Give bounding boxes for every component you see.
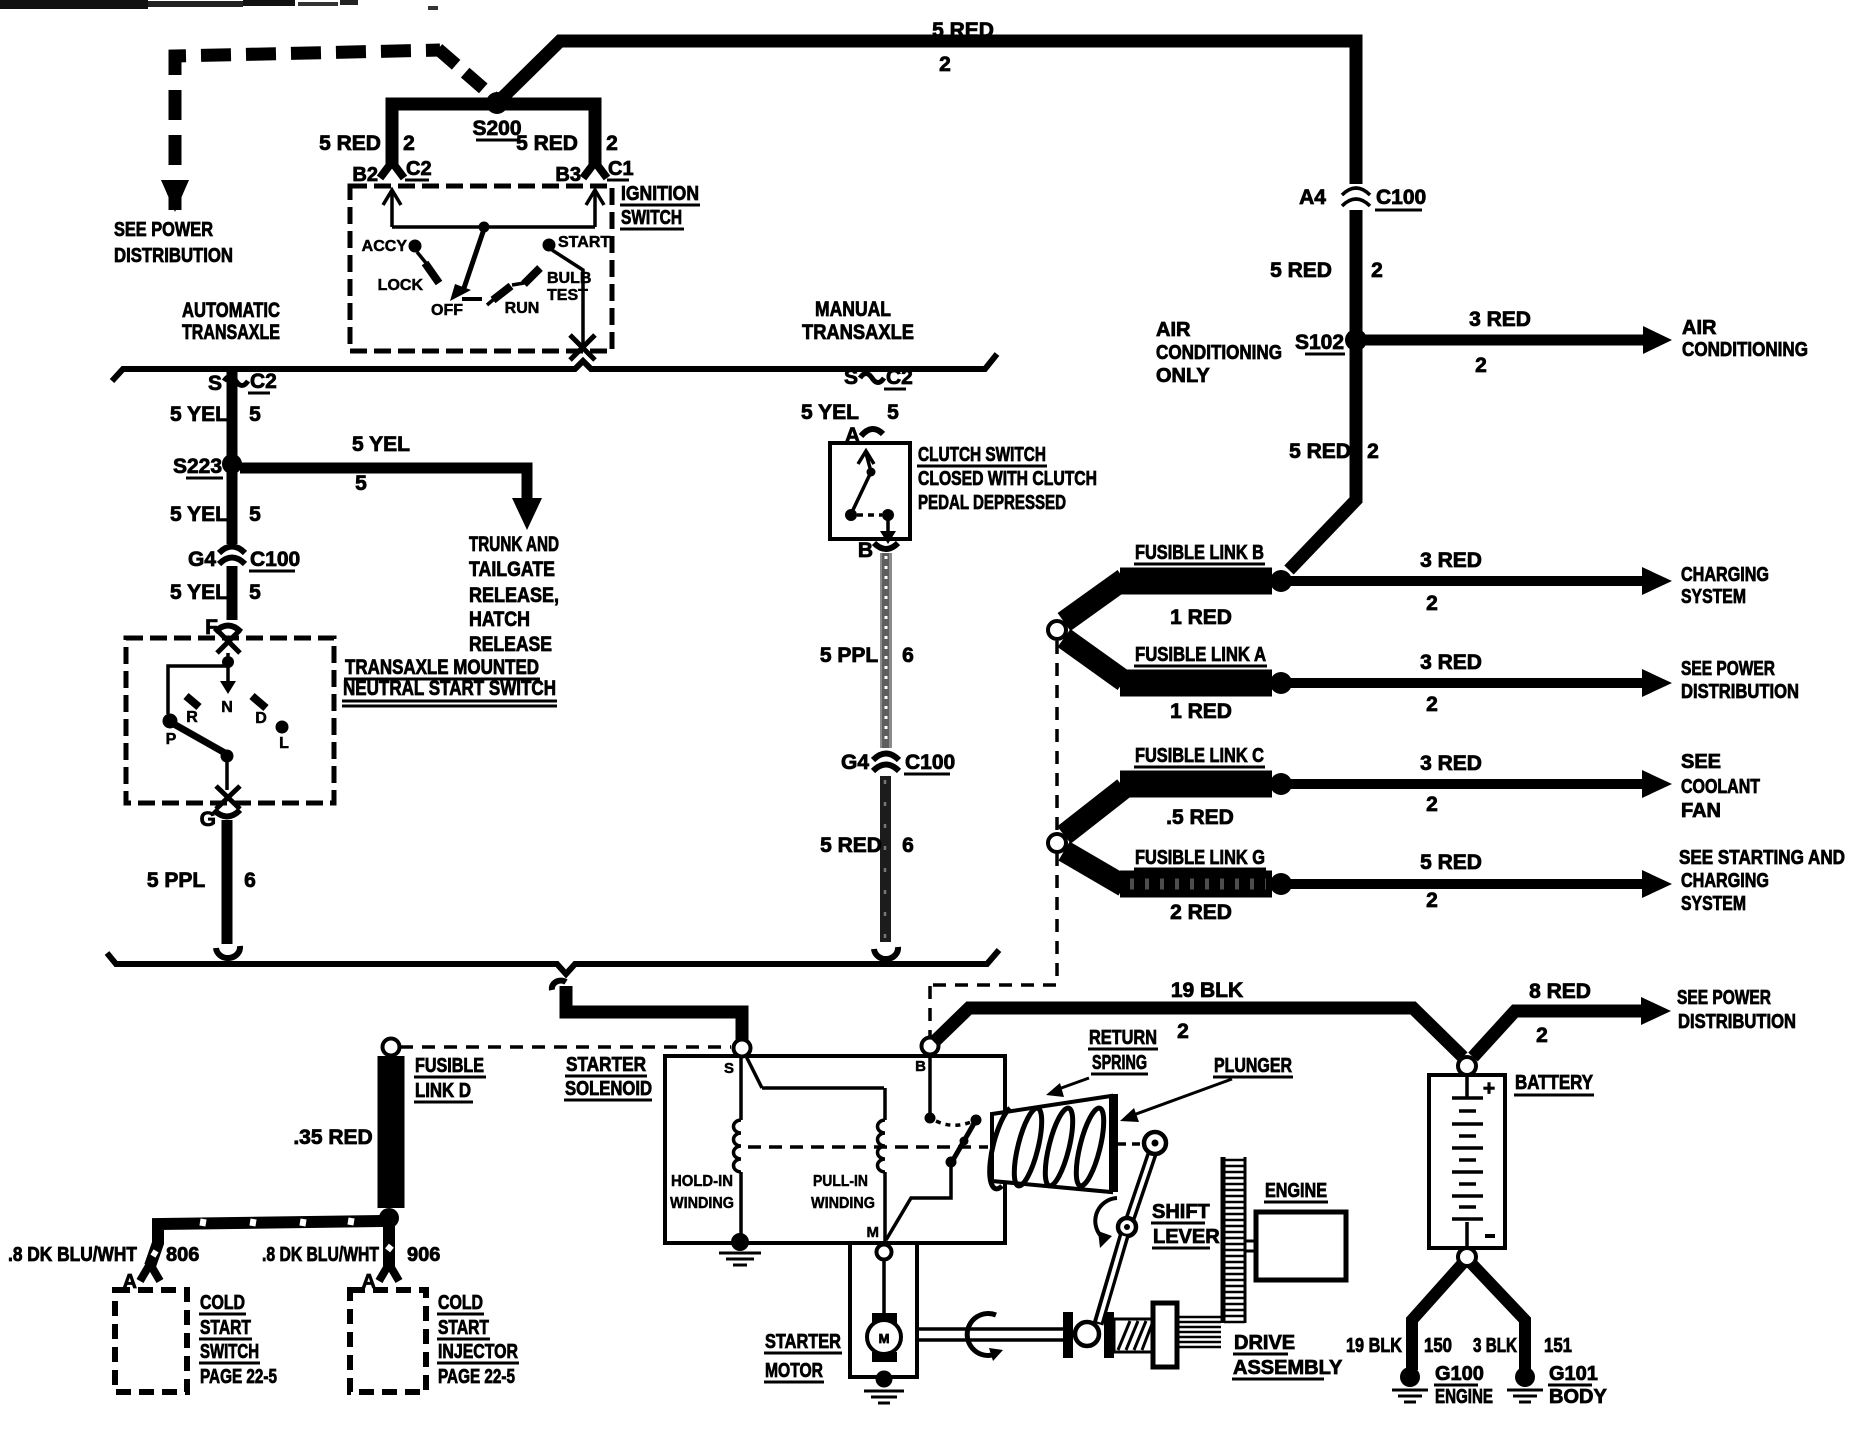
label CLUTCH SWITCH CLOSED WITH CLUTCH PEDAL DEPRESSED [917,444,1097,514]
label SEE POWER DISTRIBUTION (battery) [1677,987,1796,1033]
engine box [1246,1212,1346,1280]
svg-text:2: 2 [1426,793,1438,816]
battery negative terminal [1458,1248,1476,1266]
svg-text:M: M [879,1331,890,1346]
svg-text:3 RED: 3 RED [1420,549,1482,572]
svg-text:C2: C2 [886,366,913,389]
X crossing at neutral start switch bottom [216,786,240,809]
battery positive terminal [1458,1057,1476,1075]
svg-text:START: START [200,1317,251,1339]
hook at wire end (automatic column) [216,946,240,958]
svg-text:CHARGING: CHARGING [1681,870,1769,892]
svg-text:COLD: COLD [200,1292,245,1314]
drive splined shaft [1177,1317,1221,1347]
svg-text:ONLY: ONLY [1156,365,1210,387]
svg-text:STARTER: STARTER [566,1054,646,1076]
label AIR CONDITIONING ONLY [1156,319,1282,387]
svg-text:BATTERY: BATTERY [1515,1072,1594,1094]
svg-text:START: START [558,234,610,251]
terminal B circle [915,1038,938,1076]
svg-text:TRANSAXLE MOUNTED: TRANSAXLE MOUNTED [345,656,539,679]
ignition switch bar [392,225,595,229]
label CHARGING SYSTEM [1681,564,1769,608]
wire arrow: 8 RED to power distribution [1473,997,1671,1057]
svg-text:5 RED: 5 RED [319,132,381,155]
svg-text:C100: C100 [250,548,300,571]
svg-text:6: 6 [902,834,914,857]
svg-text:DISTRIBUTION: DISTRIBUTION [1678,1011,1796,1033]
svg-text:FUSIBLE LINK G: FUSIBLE LINK G [1135,847,1265,869]
arrow: see power distribution (down arrow) [161,180,189,212]
svg-text:5: 5 [249,581,261,604]
svg-text:LOCK: LOCK [378,277,424,294]
fusible link D bar [379,1056,399,1228]
svg-text:HOLD-IN: HOLD-IN [671,1173,733,1190]
hold-in winding coil [734,1120,742,1172]
label SEE COOLANT FAN [1681,751,1760,822]
svg-text:AIR: AIR [1682,317,1717,339]
svg-text:WINDING: WINDING [670,1195,734,1212]
label PLUNGER with leader arrow [1120,1055,1293,1122]
svg-text:5 RED: 5 RED [932,19,994,42]
label AUTOMATIC TRANSAXLE [182,299,280,344]
starter motor ground [864,1371,904,1404]
svg-text:5 YEL: 5 YEL [801,401,859,424]
svg-text:SEE POWER: SEE POWER [1677,987,1771,1009]
svg-text:.5 RED: .5 RED [1166,806,1234,829]
svg-text:G100: G100 [1435,1363,1484,1385]
svg-text:D: D [255,710,267,727]
label IGNITION SWITCH [620,183,700,229]
wire arrow: 3 RED to air conditioning [1360,326,1672,354]
svg-text:RUN: RUN [505,300,540,317]
svg-text:B: B [858,539,873,562]
connector G4 C100 (automatic column) [188,547,300,572]
hold-in winding to ground [719,1172,761,1265]
svg-text:2: 2 [606,132,618,155]
plunger face bar [1110,1094,1118,1192]
svg-text:C100: C100 [905,751,955,774]
svg-text:FAN: FAN [1681,800,1721,822]
battery box [1429,1075,1505,1248]
svg-text:3 BLK: 3 BLK [1473,1335,1517,1357]
label ENGINE [1264,1180,1328,1202]
svg-text:C1: C1 [608,158,634,180]
label 8 RED 2 [1529,980,1591,1047]
svg-text:RETURN: RETURN [1089,1027,1157,1049]
wire: 5 PPL gray stippled (clutch to C100) [880,553,892,748]
hook at wire end (manual column) [874,947,898,959]
label AIR CONDITIONING (right) [1682,317,1808,361]
wire: 5 PPL G to bus [222,820,233,944]
svg-text:2: 2 [1426,592,1438,615]
label PULL-IN WINDING [811,1173,875,1212]
pull-in winding coil [878,1088,885,1243]
shift lever [1098,1132,1166,1324]
svg-text:5 RED: 5 RED [820,834,882,857]
rotation arrow on shaft [967,1313,1003,1361]
svg-text:S: S [724,1060,734,1077]
svg-text:ACCY: ACCY [362,238,408,255]
svg-text:PAGE 22-5: PAGE 22-5 [200,1366,277,1388]
svg-text:151: 151 [1544,1335,1572,1357]
svg-text:2: 2 [1426,693,1438,716]
splice S200 node [486,92,508,114]
svg-text:COOLANT: COOLANT [1681,776,1760,798]
wire: trunk 5 RED (S102 down to bend) [1289,346,1356,570]
svg-text:SEE POWER: SEE POWER [1681,658,1775,680]
wire arrow: 3 RED to coolant fan [1283,770,1672,798]
label 5 YEL 5 [170,503,261,526]
svg-text:CONDITIONING: CONDITIONING [1682,339,1808,361]
terminal M [867,1224,892,1315]
svg-text:MANUAL: MANUAL [815,298,891,321]
svg-text:LEVER: LEVER [1153,1226,1220,1248]
svg-text:N: N [221,699,233,716]
terminal S circle [724,1040,751,1078]
label 5 RED 6 [820,834,914,857]
label FUSIBLE LINK D [414,1055,486,1102]
drive collar bar [1104,1312,1114,1358]
wire: 5 YEL branch to trunk release [240,468,527,500]
svg-text:5 RED: 5 RED [1270,259,1332,282]
svg-text:3 RED: 3 RED [1420,651,1482,674]
NSS input node [222,653,234,668]
svg-text:+: + [1483,1077,1495,1100]
wire: trunk 5 RED (C100 to S102) [1350,210,1363,334]
svg-text:SHIFT: SHIFT [1152,1201,1210,1223]
ignition switch wiper junction [479,222,490,233]
label B2 C2 [352,158,431,186]
dashed link: node to node [1055,641,1059,832]
label 5 RED 2 (upper trunk) [1270,259,1383,282]
hold-in winding wire from S [741,1054,884,1120]
connector S C2 (automatic column) [208,370,277,395]
svg-text:MOTOR: MOTOR [765,1360,823,1382]
svg-text:C100: C100 [1376,186,1426,209]
svg-text:AIR: AIR [1156,319,1191,341]
wire: 5 YEL S223 to C100 [227,472,238,544]
terminal B3/C1 prongs [583,162,607,178]
wire: bus to starter solenoid S [566,986,742,1042]
svg-text:RELEASE: RELEASE [469,633,552,656]
label 19 BLK 150 [1346,1335,1452,1357]
svg-text:SPRING: SPRING [1092,1052,1147,1074]
svg-text:SOLENOID: SOLENOID [565,1078,652,1100]
label 5 RED 2 (left) [319,132,415,155]
arrow: to trunk and tailgate release [512,498,542,530]
svg-text:START: START [438,1317,489,1339]
label 5 YEL 5 [170,581,261,604]
starter solenoid box [665,1056,1005,1243]
svg-text:5: 5 [887,401,899,424]
svg-text:BODY: BODY [1549,1386,1607,1408]
svg-text:FUSIBLE LINK A: FUSIBLE LINK A [1135,644,1266,666]
bus wire: lower bus with crossover notch [107,950,999,974]
svg-text:LINK D: LINK D [415,1080,471,1102]
ignition switch dashed box [350,186,612,351]
flywheel ring gear rack [1223,1157,1245,1323]
wire arrow: 3 RED to charging system [1283,567,1672,595]
svg-text:S: S [208,372,222,395]
label top 5 RED 2 [932,19,994,76]
svg-text:TRUNK AND: TRUNK AND [469,533,559,556]
svg-text:PULL-IN: PULL-IN [813,1173,868,1190]
fusible link C bar [1064,773,1292,835]
wire: 5 YEL C100 to F [227,566,238,620]
wire arrow: 5 RED to starting and charging [1283,870,1672,898]
svg-text:S102: S102 [1295,331,1344,354]
svg-text:G101: G101 [1549,1363,1598,1385]
svg-text:NEUTRAL START SWITCH: NEUTRAL START SWITCH [343,677,556,700]
label SEE POWER DISTRIBUTION [1681,658,1799,703]
label FUSIBLE LINK C [1134,745,1265,767]
svg-text:5: 5 [355,472,367,495]
wire: 5 RED from S200 to top right run [497,41,1356,184]
splice S102 [1295,329,1367,354]
trunk connector A4 C100 [1299,186,1426,210]
svg-text:6: 6 [902,644,914,667]
label: SEE POWER DISTRIBUTION [114,219,233,267]
wire: 3 BLK battery to G101 [1471,1263,1525,1370]
svg-text:B3: B3 [555,164,581,186]
svg-text:PAGE 22-5: PAGE 22-5 [438,1366,515,1388]
clutch switch box [830,443,910,539]
svg-text:2 RED: 2 RED [1170,901,1232,924]
svg-text:M: M [867,1224,880,1241]
svg-text:SEE: SEE [1681,751,1721,773]
svg-text:G4: G4 [841,751,869,774]
svg-text:3 RED: 3 RED [1469,308,1531,331]
svg-text:SWITCH: SWITCH [200,1341,259,1363]
svg-text:2: 2 [403,132,415,155]
ground G101 BODY [1507,1363,1607,1408]
svg-text:INJECTOR: INJECTOR [438,1341,518,1363]
label 5 YEL 5 [170,403,261,426]
svg-text:S200: S200 [472,117,521,140]
svg-text:R: R [186,709,198,726]
svg-text:SYSTEM: SYSTEM [1681,893,1746,915]
contact BULB TEST [512,268,591,304]
label BATTERY [1514,1072,1594,1095]
svg-text:SEE STARTING AND: SEE STARTING AND [1679,847,1845,869]
crossover hook below bus [552,981,566,990]
dashed link: lower node to solenoid B [930,853,1057,1036]
label FUSIBLE LINK A [1134,644,1267,666]
svg-text:1 RED: 1 RED [1170,700,1232,723]
terminal B (clutch switch) [858,539,898,562]
label 19 BLK 2 [1171,979,1243,1043]
contact RUN [487,286,539,317]
drive pinion housing [1153,1303,1177,1367]
fusible link A bar [1064,638,1292,694]
terminal A (cold start injector) [362,1264,399,1293]
svg-text:RELEASE,: RELEASE, [469,584,559,607]
wire arrow: 3 RED to power distribution [1283,669,1672,697]
NSS L contact [276,721,290,753]
svg-text:2: 2 [1367,440,1379,463]
ground G100 ENGINE [1392,1363,1493,1408]
label MANUAL TRANSAXLE [802,298,914,344]
scanner smudge top edge [0,0,438,10]
ignition switch internal arrows at B2 and B3 [383,190,604,227]
NSS wire to P [163,666,229,748]
cold start switch dashed box [115,1290,187,1392]
bus wire: automatic/manual transaxle top bus [112,354,997,381]
svg-text:PLUNGER: PLUNGER [1214,1055,1292,1077]
label S200 [472,117,521,140]
svg-text:SYSTEM: SYSTEM [1681,586,1746,608]
svg-text:19 BLK: 19 BLK [1171,979,1243,1002]
svg-text:ASSEMBLY: ASSEMBLY [1233,1357,1343,1379]
svg-text:BULB: BULB [547,270,591,287]
svg-text:TRANSAXLE: TRANSAXLE [802,321,914,344]
label 3 RED 2 [1420,752,1482,816]
svg-text:2: 2 [1371,259,1383,282]
svg-text:.35 RED: .35 RED [293,1126,372,1149]
svg-text:5 RED: 5 RED [516,132,578,155]
svg-text:ENGINE: ENGINE [1265,1180,1327,1202]
svg-text:CONDITIONING: CONDITIONING [1156,342,1282,364]
terminal B2/C2 prongs [380,162,404,178]
svg-text:5: 5 [249,503,261,526]
svg-text:5 RED: 5 RED [1420,851,1482,874]
svg-text:DISTRIBUTION: DISTRIBUTION [114,245,233,267]
svg-text:COLD: COLD [438,1292,483,1314]
svg-text:2: 2 [939,53,951,76]
drive flange [1063,1312,1073,1358]
label 5 PPL 6 (manual) [820,644,914,667]
svg-text:FUSIBLE LINK C: FUSIBLE LINK C [1135,745,1264,767]
svg-text:5 PPL: 5 PPL [147,869,206,892]
NSS R contact [186,696,199,726]
ball joint [1075,1322,1099,1346]
label STARTER MOTOR [764,1331,842,1382]
cold start injector dashed box [350,1290,426,1392]
wire: 5 YEL bus to S223 [227,372,238,456]
label COLD START SWITCH PAGE 22-5 [199,1292,277,1388]
label 3 BLK 151 [1473,1335,1572,1357]
dashed actuator line [748,1145,988,1149]
svg-text:150: 150 [1424,1335,1452,1357]
svg-text:AUTOMATIC: AUTOMATIC [182,299,280,322]
svg-text:CLUTCH SWITCH: CLUTCH SWITCH [918,444,1046,466]
svg-text:.8 DK BLU/WHT: .8 DK BLU/WHT [8,1244,137,1266]
svg-text:5 PPL: 5 PPL [820,644,879,667]
label SHIFT LEVER [1151,1201,1220,1248]
contact LOCK [378,263,439,294]
svg-text:TRANSAXLE: TRANSAXLE [182,321,280,344]
wire: 5 RED (C100 to bus, manual) [880,776,891,942]
label .8 DK BLU/WHT 806 [8,1244,199,1266]
solenoid moving contact [886,1120,976,1240]
svg-text:5 RED: 5 RED [1289,440,1351,463]
label SEE STARTING AND CHARGING SYSTEM [1679,847,1845,915]
svg-text:.8 DK BLU/WHT: .8 DK BLU/WHT [262,1244,379,1266]
label 5 YEL 5 (branch) [352,433,410,495]
connector G4 C100 (manual column) [841,751,955,774]
terminal G [200,808,240,831]
starter motor housing [848,1243,919,1377]
X crossing at neutral start switch top [217,630,240,653]
terminal A (clutch switch) [845,424,883,447]
X crossing at ignition switch bottom [570,335,595,360]
svg-text:B2: B2 [352,164,378,186]
svg-text:L: L [279,735,289,752]
svg-text:DISTRIBUTION: DISTRIBUTION [1681,681,1799,703]
svg-text:5 YEL: 5 YEL [170,503,228,526]
svg-text:19 BLK: 19 BLK [1346,1335,1402,1357]
svg-text:S223: S223 [173,455,222,478]
label RETURN SPRING with leader arrow [1046,1027,1158,1097]
svg-text:6: 6 [244,869,256,892]
svg-text:2: 2 [1426,889,1438,912]
label COLD START INJECTOR PAGE 22-5 [437,1292,519,1388]
contact ACCY [362,238,426,263]
battery cell plates [1452,1077,1495,1246]
svg-text:A4: A4 [1299,186,1326,209]
label 5 RED 2 [1420,851,1482,912]
label 5 RED 2 (lower trunk) [1289,440,1379,463]
svg-text:ENGINE: ENGINE [1435,1386,1493,1408]
svg-text:IGNITION: IGNITION [621,183,699,205]
fusible link fan: upper fork node [1048,621,1066,639]
label B3 C1 [555,158,633,186]
label 5 RED 2 (right) [516,132,618,155]
wire: dashed 5 RED feed to power distribution (top left) [175,49,499,210]
contact START [543,234,611,252]
svg-text:3 RED: 3 RED [1420,752,1482,775]
label FUSIBLE LINK B [1134,542,1265,564]
svg-text:P: P [166,731,177,748]
NSS lever P to output [172,723,234,790]
label 5 YEL 5 (manual) [801,401,899,424]
svg-text:G4: G4 [188,548,216,571]
fusible link B bar [1064,570,1292,622]
svg-text:2: 2 [1177,1020,1189,1043]
neutral start switch dashed box [126,638,334,803]
svg-text:S: S [844,366,858,389]
svg-text:806: 806 [166,1244,199,1266]
label STARTER SOLENOID [564,1054,652,1100]
dashed link plunger to shift lever [1118,1142,1142,1146]
wire: 19 BLK from solenoid B to battery [934,1008,1463,1057]
label 3 RED 2 [1420,549,1482,615]
svg-text:8 RED: 8 RED [1529,980,1591,1003]
svg-text:CLOSED WITH CLUTCH: CLOSED WITH CLUTCH [918,468,1097,490]
svg-text:STARTER: STARTER [765,1331,841,1353]
clutch switch internals [845,451,896,544]
svg-text:CHARGING: CHARGING [1681,564,1769,586]
svg-text:906: 906 [407,1244,440,1266]
NSS N contact arrow [220,666,236,716]
label 3 RED 2 [1469,308,1531,377]
svg-text:2: 2 [1475,354,1487,377]
curved arrow at shift lever pivot [1095,1198,1117,1248]
svg-text:WINDING: WINDING [811,1195,875,1212]
ignition switch lever to OFF [450,229,484,301]
label FUSIBLE LINK G [1134,847,1266,869]
splice S223 [173,454,242,478]
label 5 PPL 6 [147,869,256,892]
svg-text:PEDAL DEPRESSED: PEDAL DEPRESSED [918,492,1066,514]
solenoid contact from B [925,1054,982,1126]
svg-text:5 YEL: 5 YEL [170,581,228,604]
label HOLD-IN WINDING [670,1173,734,1212]
return spring and plunger body [990,1096,1111,1192]
svg-text:DRIVE: DRIVE [1234,1332,1295,1354]
starter output shaft [919,1329,1063,1340]
